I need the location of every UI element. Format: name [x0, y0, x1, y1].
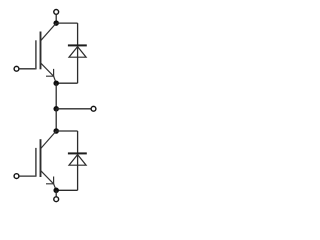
wire: top terminal to node C1 [55, 14, 57, 20]
diode D1 cathode bar [68, 44, 87, 46]
wire: D1 anode corner to node E1 [56, 82, 77, 84]
diode D1 triangle (anode, pointing up) [69, 47, 86, 58]
node C2: bottom collector junction dot [53, 128, 59, 134]
wire: D2 anode corner to node E2 [56, 189, 77, 191]
terminal: bottom emitter (DC-) open circle [54, 197, 59, 202]
wire: node M down to node C2 [55, 109, 57, 131]
IGBT Q1 gate bar [35, 40, 37, 69]
wire: node M to AC output terminal [56, 108, 91, 110]
node E2: bottom emitter junction dot [53, 188, 59, 194]
diode D2 triangle (anode, pointing up) [69, 155, 86, 166]
wire: Q1 collector diagonal [40, 23, 56, 41]
terminal: Q2 gate open circle [14, 174, 19, 179]
terminal: top collector (DC+) open circle [54, 10, 59, 15]
diode D2 cathode bar [68, 152, 87, 154]
wire: Q2 gate lead [19, 175, 36, 177]
wire: Q2 emitter diagonal and stub to node E2 [41, 170, 57, 190]
wire: node C2 to diode D2 cathode branch [56, 130, 77, 132]
node M: midpoint (phase output) junction dot [53, 106, 59, 112]
diode D1 branch wire (cathode to anode vertical) [77, 23, 79, 83]
node E1: top emitter junction dot [53, 80, 59, 86]
IGBT Q1 emitter arrowhead (open barbs) [46, 69, 54, 76]
wire: node C1 to diode D1 cathode branch [56, 22, 77, 24]
IGBT Q2 emitter arrowhead (open barbs) [46, 177, 54, 184]
node C1: top collector junction dot [53, 20, 59, 26]
wire: Q1 emitter diagonal and stub to node E1 [41, 63, 57, 83]
wire: node E1 down to midpoint node M [55, 83, 57, 109]
wire: Q1 gate lead [19, 68, 36, 70]
wire: Q2 collector diagonal [40, 131, 56, 149]
terminal: Q1 gate open circle [14, 66, 19, 71]
IGBT Q2 body bar [40, 139, 42, 177]
terminal: AC output open circle [91, 106, 96, 111]
IGBT Q2 gate bar [35, 148, 37, 177]
wire: node E2 to bottom terminal [55, 190, 57, 196]
diode D2 branch wire (cathode to anode vertical) [77, 131, 79, 190]
IGBT Q1 body bar [40, 32, 42, 70]
